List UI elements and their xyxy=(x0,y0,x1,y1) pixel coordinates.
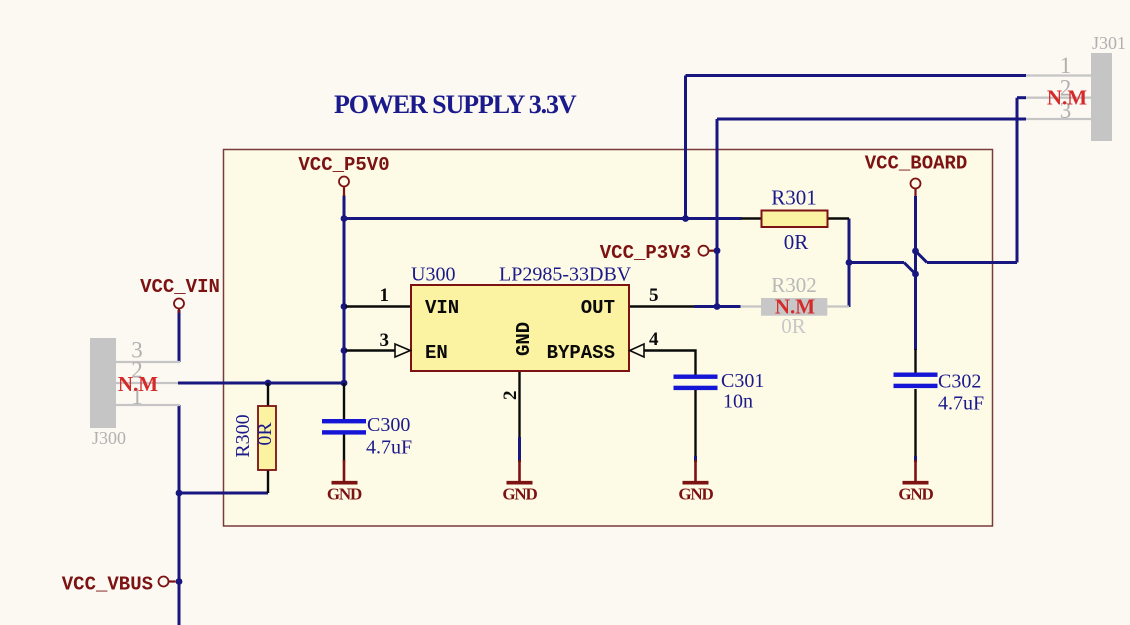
wire J301 pin3 horizontal xyxy=(717,118,1026,121)
power symbol VCC_P3V3 xyxy=(600,242,714,264)
junction EN xyxy=(341,347,348,354)
svg-text:N.M: N.M xyxy=(1047,86,1087,110)
resistor R301 0R xyxy=(762,186,828,255)
wire OUT to R302 left xyxy=(694,305,741,308)
wire J301 pin2 stub xyxy=(1017,96,1026,99)
svg-text:4.7uF: 4.7uF xyxy=(938,393,984,415)
svg-text:C300: C300 xyxy=(367,414,410,436)
svg-text:J300: J300 xyxy=(92,428,126,448)
pin U300.5 OUT xyxy=(629,305,694,307)
resistor R300 0R vertical xyxy=(232,406,276,470)
svg-text:R300: R300 xyxy=(232,414,254,457)
svg-text:EN: EN xyxy=(425,342,448,364)
junction P5V0 rail xyxy=(341,215,348,222)
svg-text:1: 1 xyxy=(380,285,390,306)
svg-text:N.M: N.M xyxy=(118,372,158,396)
capacitor C300 4.7uF xyxy=(322,414,412,459)
BYPASS input arrow xyxy=(630,344,644,357)
junction VIN xyxy=(341,303,348,310)
pin R302.2 gray xyxy=(827,305,849,307)
wire stub C302 gnd xyxy=(914,456,917,462)
power symbol VCC_P5V0 xyxy=(298,154,389,196)
pin J300.2 gray xyxy=(116,382,178,384)
svg-text:0R: 0R xyxy=(784,230,809,254)
svg-text:J301: J301 xyxy=(1092,33,1126,53)
pin U300.4 BYPASS xyxy=(644,351,696,375)
pin J301.2 gray xyxy=(1026,97,1091,99)
svg-text:VCC_BOARD: VCC_BOARD xyxy=(865,153,968,175)
svg-text:U300: U300 xyxy=(411,264,455,286)
wire rail y=217.5 P5V0 to R301 xyxy=(344,217,742,220)
svg-text:LP2985-33DBV: LP2985-33DBV xyxy=(499,264,632,286)
svg-text:GND: GND xyxy=(678,485,713,504)
svg-text:C302: C302 xyxy=(938,371,981,393)
svg-text:1: 1 xyxy=(1060,53,1072,78)
wire J301 pin1 horizontal xyxy=(686,74,1027,77)
svg-text:VCC_P3V3: VCC_P3V3 xyxy=(600,242,691,264)
capacitor C301 10n xyxy=(674,370,765,413)
pin R301.1 xyxy=(741,217,762,219)
junction R300 bottom xyxy=(176,490,183,497)
wire diagonal from upper dot xyxy=(916,251,928,263)
svg-text:4.7uF: 4.7uF xyxy=(366,437,412,459)
wire vertical x=717 P3V3 to OUT xyxy=(716,119,719,307)
svg-text:0R: 0R xyxy=(781,314,806,338)
svg-text:POWER SUPPLY 3.3V: POWER SUPPLY 3.3V xyxy=(334,90,577,119)
pin C302.1 xyxy=(914,349,916,373)
pin R300.2 xyxy=(267,470,269,493)
pin R302.1 gray xyxy=(741,305,762,307)
svg-text:3: 3 xyxy=(380,330,390,351)
pin U300.2 GND xyxy=(518,371,520,437)
svg-text:R301: R301 xyxy=(771,186,817,210)
resistor R302 N.M xyxy=(761,273,827,338)
svg-text:0R: 0R xyxy=(254,422,276,446)
pin R300.1 xyxy=(267,383,269,406)
power symbol VCC_VIN xyxy=(140,276,220,313)
svg-text:VCC_VBUS: VCC_VBUS xyxy=(62,574,153,596)
svg-text:5: 5 xyxy=(649,285,659,306)
junction OUT node xyxy=(714,303,721,310)
junction R301 right branch xyxy=(846,259,853,266)
svg-text:BYPASS: BYPASS xyxy=(547,342,615,364)
pin J301.3 gray xyxy=(1026,118,1091,120)
EN input arrow xyxy=(395,344,410,357)
pin C300.2 xyxy=(343,435,345,463)
svg-text:OUT: OUT xyxy=(581,297,615,319)
pin C301.2 xyxy=(694,390,696,456)
wire vertical x=179 J300 pin1 down to bottom xyxy=(178,405,181,625)
pin J301.1 gray xyxy=(1026,74,1091,76)
pin C302.2 xyxy=(914,389,916,456)
schematic sheet xyxy=(224,150,993,527)
pin U300.1 VIN xyxy=(346,305,412,307)
wire vertical from J301 pin1 down to rail xyxy=(684,76,687,219)
wire VCC_VIN to J300 pin3 xyxy=(178,310,181,362)
wire stub C301 gnd xyxy=(694,456,697,462)
wire J300 pin2 to x=344 xyxy=(178,382,344,385)
svg-text:C301: C301 xyxy=(721,370,764,392)
svg-text:4: 4 xyxy=(649,329,659,350)
wire vertical x=1017 J301 pin2 xyxy=(1016,98,1019,263)
junction VCC_BOARD upper xyxy=(912,248,919,255)
svg-text:GND: GND xyxy=(502,485,537,504)
pin R301.2 xyxy=(828,217,850,219)
ground GND under U300 xyxy=(502,460,537,504)
junction VCC_VBUS xyxy=(176,578,183,585)
pin J300.3 gray xyxy=(116,361,180,363)
ground GND under C300 xyxy=(327,460,362,504)
wire VCC_BOARD vertical to C302 xyxy=(914,196,917,350)
svg-text:VIN: VIN xyxy=(425,297,459,319)
power symbol VCC_BOARD xyxy=(865,153,968,197)
wire R300 bottom horizontal xyxy=(179,492,268,495)
svg-text:GND: GND xyxy=(513,322,535,356)
pin C300.1 xyxy=(343,383,345,419)
junction VCC_BOARD lower xyxy=(912,271,919,278)
svg-text:10n: 10n xyxy=(723,391,753,413)
junction R300 top xyxy=(265,380,272,387)
wire VCC_P5V0 vertical x=344 xyxy=(343,196,346,384)
svg-text:R302: R302 xyxy=(771,273,817,297)
pin J300.1 gray xyxy=(116,404,180,406)
connector J301 xyxy=(1047,33,1126,141)
svg-text:GND: GND xyxy=(898,485,933,504)
capacitor C302 4.7uF xyxy=(894,371,985,415)
wire stub U300 GND pin xyxy=(518,437,521,462)
connector J300 xyxy=(90,338,158,449)
svg-text:VCC_P5V0: VCC_P5V0 xyxy=(298,154,389,176)
svg-text:VCC_VIN: VCC_VIN xyxy=(140,276,220,298)
ground GND under C301 xyxy=(678,460,713,504)
svg-text:2: 2 xyxy=(500,391,521,401)
junction VCC_P3V3 xyxy=(714,247,721,254)
wire vertical x=849 R301 right to R302 right xyxy=(848,219,851,308)
junction rail J301pin1 xyxy=(682,215,689,222)
power symbol VCC_VBUS xyxy=(62,574,176,596)
pin U300.3 EN xyxy=(346,349,396,351)
wire diagonal to lower dot xyxy=(904,263,916,275)
wire horizontal to diagonal left of VCC_BOARD xyxy=(849,261,904,264)
svg-text:GND: GND xyxy=(327,485,362,504)
junction pin2 end xyxy=(341,380,348,387)
regulator U300 LP2985-33DBV xyxy=(380,264,660,401)
ground GND under C302 xyxy=(898,460,933,504)
wire horizontal to J301 pin2 vertical xyxy=(927,261,1017,264)
